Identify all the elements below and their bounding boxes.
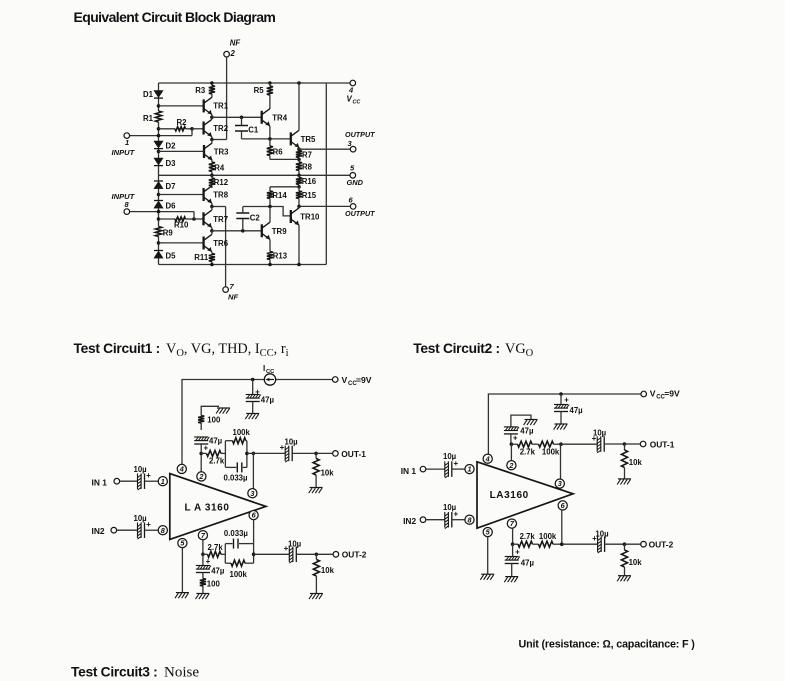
capacitor 47u at TC2 pin2 [511, 415, 531, 427]
pin circle 4 TC2 [483, 454, 492, 463]
resistor R9 [155, 227, 161, 237]
diode D3 [154, 158, 163, 165]
terminal VCC=9V [332, 377, 338, 383]
svg-text:10µ: 10µ [134, 514, 148, 523]
svg-text:47µ: 47µ [521, 559, 535, 568]
svg-text:Equivalent Circuit Block Diagr: Equivalent Circuit Block Diagram [74, 9, 276, 25]
svg-text:1: 1 [125, 138, 129, 147]
pin circle 5 TC2 [483, 528, 492, 537]
wire: pin2 node vertical [200, 453, 202, 471]
wire: TC2 Vcc rail [488, 394, 640, 454]
ground at TC2 pin7 47u [505, 576, 518, 578]
resistor 100 at pin2 [198, 416, 204, 424]
capacitor 10u TC2 OUT-2 [597, 536, 599, 552]
svg-text:2: 2 [230, 49, 236, 58]
pin circle 3 [248, 489, 257, 498]
wire: R2 node to TR2 base [190, 127, 194, 131]
diode D1 [154, 91, 163, 98]
capacitor 47u at Vcc rail [251, 378, 255, 382]
wire: C1 bottom to TR5 base [242, 138, 291, 140]
svg-text:+: + [453, 509, 458, 518]
wire: R14 top to R16/R15 junction [270, 186, 299, 188]
svg-text:10k: 10k [321, 468, 335, 477]
svg-text:100k: 100k [230, 570, 248, 579]
wire: pin6 vertical [253, 520, 255, 544]
transistor TR7 [202, 212, 204, 225]
svg-text:R10: R10 [174, 221, 189, 230]
pin circle 8 [158, 526, 167, 535]
resistor 100 at pin7 [200, 579, 206, 587]
wire: TR6 collector [211, 231, 213, 235]
resistor 10k TC2 OUT-2 [624, 544, 626, 550]
resistor R7 [298, 149, 300, 150]
terminal OUT-2 TC2 [641, 541, 647, 547]
svg-text:IN 1: IN 1 [92, 477, 108, 487]
svg-text:10k: 10k [629, 458, 643, 467]
svg-text:NF: NF [230, 39, 241, 48]
resistor 2.7k TC2 top [511, 443, 517, 445]
resistor R8 [298, 159, 300, 162]
wire: TC2 pin7 node [512, 528, 514, 544]
capacitor C2 [241, 229, 245, 233]
svg-text:CC: CC [266, 369, 275, 375]
svg-text:TR4: TR4 [272, 113, 287, 122]
wire: TR3 collector [211, 140, 213, 143]
capacitor 0.033u TC1 top [225, 466, 236, 468]
transistor TR9 [261, 224, 263, 237]
svg-text:R6: R6 [273, 147, 284, 156]
node OUT-1 TC2 [623, 442, 627, 446]
svg-text:IN 1: IN 1 [401, 466, 417, 476]
svg-text:+: + [255, 388, 260, 397]
terminal INPUT pin 1 [130, 135, 192, 137]
capacitor 10u OUT-2 [288, 547, 290, 563]
svg-text:Unit (resistance: Ω, capacitan: Unit (resistance: Ω, capacitance: F ) [519, 639, 696, 651]
svg-text:D5: D5 [166, 252, 177, 261]
wire: top rail to Vcc [159, 82, 350, 84]
svg-text:R3: R3 [195, 86, 206, 95]
svg-text:+: + [564, 396, 569, 405]
pin circle 7 [198, 531, 207, 540]
svg-text:V: V [342, 375, 348, 385]
pin circle 1 [158, 477, 167, 486]
svg-text:2.7k: 2.7k [520, 448, 536, 457]
node OUT-2 TC2 [623, 542, 627, 546]
svg-text:100k: 100k [542, 448, 560, 457]
node: TR5 emitter / pin3 net [298, 148, 300, 150]
pin circle 2 TC2 [507, 461, 516, 470]
wire: gnd rail to pin5 [159, 174, 350, 176]
svg-text:4: 4 [179, 465, 184, 474]
terminal OUTPUT pin 6 [350, 204, 356, 210]
transistor TR5 [290, 132, 292, 145]
wire: right vertical rail [325, 83, 327, 265]
resistor 100k TC2 bottom [539, 541, 554, 547]
svg-text:47µ: 47µ [209, 437, 223, 446]
diode D2 [154, 141, 163, 148]
wire: pin5 to ground [181, 548, 183, 593]
capacitor 47u at pin2 [194, 436, 208, 438]
svg-text:OUT-1: OUT-1 [650, 439, 675, 449]
wire: to OUTPUT pin 3 [299, 148, 350, 150]
resistor R15 [298, 187, 300, 191]
terminal VCC pin 4 [350, 80, 356, 86]
resistor R6 [269, 139, 271, 146]
svg-text:4: 4 [485, 454, 490, 463]
resistor R1 [155, 111, 161, 122]
ground at pin2 100 [217, 407, 230, 409]
wire: TR2 collector [211, 117, 213, 119]
transistor TR4 [261, 111, 263, 124]
svg-text:+: + [146, 520, 151, 529]
svg-text:10µ: 10µ [134, 465, 148, 474]
svg-text:R13: R13 [273, 252, 288, 261]
ground at pin5 [176, 592, 189, 594]
node: D7-D6 junction to TR8 base [157, 193, 161, 197]
svg-text:IN2: IN2 [403, 516, 416, 526]
resistor R5 [268, 81, 272, 85]
resistor 2.7k TC1 bottom [203, 553, 208, 555]
capacitor 47u at pin7 [202, 554, 204, 565]
svg-text:R7: R7 [302, 151, 312, 160]
resistor 100k TC2 top [539, 441, 554, 447]
svg-text:R2: R2 [177, 118, 188, 127]
svg-text:100k: 100k [233, 428, 251, 437]
resistor 10k OUT-1 [315, 453, 317, 458]
svg-text:10µ: 10µ [285, 438, 299, 447]
node: TR4 emitter [269, 126, 271, 139]
svg-text:R15: R15 [302, 191, 317, 200]
transistor TR2 [202, 122, 204, 135]
svg-text:I: I [263, 364, 265, 373]
svg-text:TR6: TR6 [213, 239, 228, 248]
capacitor 10u OUT-1 [284, 446, 286, 462]
pin circle 7 TC2 [507, 519, 516, 528]
svg-text:OUTPUT: OUTPUT [345, 209, 375, 218]
svg-text:OUTPUT: OUTPUT [345, 130, 375, 139]
wire: pin3 vertical TC2 [560, 444, 562, 479]
svg-text:47µ: 47µ [570, 406, 584, 415]
svg-text:CC: CC [353, 100, 361, 106]
ground at TC2 OUT-1 [618, 478, 631, 480]
svg-text:0.033µ: 0.033µ [224, 529, 249, 538]
wire: C2 top / TR9 collector node to TR10 base [243, 207, 291, 216]
resistor 100k TC1 top [225, 440, 232, 442]
node: D2-D3 junction to TR3 base [157, 150, 161, 154]
resistor R4 [211, 160, 213, 162]
capacitor 10u TC2 IN1 [444, 461, 446, 477]
svg-text:2.7k: 2.7k [520, 532, 536, 541]
svg-text:10k: 10k [629, 558, 643, 567]
svg-text:INPUT: INPUT [112, 148, 136, 157]
wire: TR7 collector [211, 207, 213, 211]
resistor 100k TC1 bottom [225, 562, 231, 564]
svg-text:C2: C2 [250, 213, 261, 222]
svg-text:3: 3 [250, 489, 254, 498]
resistor R16 [298, 175, 300, 177]
svg-text:Test Circuit2 :: Test Circuit2 : [413, 341, 499, 356]
svg-text:10µ: 10µ [288, 539, 302, 548]
svg-text:100k: 100k [539, 532, 557, 541]
svg-text:2: 2 [508, 461, 513, 470]
svg-text:+: + [513, 434, 518, 443]
svg-text:2: 2 [198, 472, 203, 481]
svg-text:OUT-2: OUT-2 [649, 540, 674, 550]
ammeter ICC [264, 374, 275, 385]
node OUT-1 [314, 452, 318, 456]
resistor R3 [211, 83, 213, 86]
resistor R13 [267, 252, 273, 260]
terminal INPUT pin 8 [124, 209, 130, 215]
op-amp U1 LA3160 [170, 474, 266, 540]
svg-text:TR8: TR8 [213, 191, 228, 200]
terminal OUT-1 TC2 [640, 441, 646, 447]
terminal NF pin 7 [223, 287, 229, 293]
svg-text:R12: R12 [214, 178, 229, 187]
transistor TR6 [202, 237, 204, 250]
ground at TC2 OUT-2 [618, 575, 631, 577]
node: TR8 emitter / NF7 net [211, 203, 213, 206]
svg-text:47µ: 47µ [261, 396, 275, 405]
svg-text:0.033µ: 0.033µ [224, 474, 249, 483]
svg-text:+: + [206, 557, 211, 566]
svg-text:1: 1 [161, 477, 165, 486]
svg-text:TR5: TR5 [301, 135, 316, 144]
node: TR1 emitter [211, 115, 213, 118]
wire: out2 node line [254, 553, 290, 555]
wire: TC2 pin6 vertical [561, 510, 563, 544]
svg-text:Noise: Noise [164, 665, 199, 681]
capacitor 10u TC2 OUT-1 [596, 436, 598, 452]
wire: NF pin7 vertical [225, 207, 227, 287]
svg-text:=9V: =9V [356, 375, 372, 385]
ground at TC2 pin2 47u [525, 419, 538, 421]
transistor TR3 [203, 145, 205, 158]
svg-text:+: + [453, 459, 458, 468]
ground at TC2 pin5 [481, 573, 494, 575]
wire: to OUTPUT pin 6 [299, 205, 350, 207]
terminal OUT-2 [333, 552, 339, 558]
transistor TR8 [202, 188, 204, 201]
resistor R10 [157, 217, 161, 221]
svg-text:TR3: TR3 [214, 148, 229, 157]
wire: R6 bottom to R7/R8 junction [270, 158, 299, 160]
pin circle 4 [177, 464, 186, 473]
svg-text:100: 100 [207, 416, 221, 425]
svg-text:NF: NF [228, 293, 238, 302]
svg-text:TR2: TR2 [213, 124, 228, 133]
pin circle 3 TC2 [555, 479, 564, 488]
node: TR2 emitter / NF net [211, 137, 213, 140]
svg-text:+: + [146, 471, 151, 480]
wire: bottom rail [159, 264, 327, 266]
wire: TC2 pin5 to ground [487, 537, 489, 575]
svg-text:10µ: 10µ [595, 530, 609, 539]
feedback box TC1 top: 100k parallel 0.033u [224, 441, 226, 468]
svg-text:R9: R9 [163, 229, 174, 238]
wire: TR9 emitter to R13 [269, 239, 271, 251]
svg-text:TR7: TR7 [213, 215, 228, 224]
terminal GND pin 5 [350, 173, 356, 179]
pin circle 2 [197, 472, 206, 481]
svg-text:R5: R5 [254, 86, 265, 95]
svg-text:10µ: 10µ [593, 428, 607, 437]
diode D6 [154, 200, 163, 202]
svg-text:47µ: 47µ [520, 427, 534, 436]
svg-text:D1: D1 [143, 90, 154, 99]
wire: input8 node to TR7 base [192, 217, 196, 221]
terminal OUTPUT pin 3 [350, 146, 356, 152]
node pin2 TC2 [510, 442, 514, 446]
capacitor 10u IN1 [137, 473, 139, 489]
resistor R2 [159, 128, 176, 130]
svg-text:D7: D7 [166, 182, 176, 191]
ground at OUT-1 10k [310, 487, 323, 489]
svg-text:OUT-1: OUT-1 [341, 449, 366, 459]
terminal VCC=9V TC2 [641, 391, 647, 397]
wire: TR5 collector to top rail [297, 81, 301, 85]
pin circle 5 [178, 539, 187, 548]
node feedback/out TC2 top [559, 442, 563, 446]
wire: left bias rail segments [158, 83, 160, 91]
wire: pin7 node [202, 540, 204, 555]
terminal OUT-1 [333, 451, 339, 457]
resistor 10k TC2 OUT-1 [624, 444, 626, 450]
wire: TC2 out2 line [562, 543, 598, 545]
svg-text:Test Circuit3 :: Test Circuit3 : [71, 665, 157, 680]
capacitor 10u TC2 IN2 [444, 512, 446, 528]
svg-text:100: 100 [207, 580, 221, 589]
feedback box TC1 bottom [224, 544, 226, 564]
svg-text:L A 3160: L A 3160 [185, 503, 230, 514]
svg-text:R14: R14 [272, 191, 287, 200]
transistor TR1 [203, 99, 205, 112]
capacitor C1 [240, 116, 244, 120]
svg-text:47µ: 47µ [211, 567, 225, 576]
svg-text:R11: R11 [194, 253, 209, 262]
svg-text:GND: GND [347, 178, 364, 187]
svg-text:+: + [203, 444, 208, 453]
capacitor 10u IN2 [137, 522, 139, 538]
svg-text:3: 3 [558, 479, 562, 488]
resistor 2.7k TC2 bottom [513, 543, 518, 545]
svg-text:D2: D2 [166, 142, 177, 151]
wire: TR1 emitter to TR4 base [212, 116, 262, 118]
transistor TR10 [290, 210, 292, 223]
capacitor 47u at TC2 rail [559, 392, 563, 396]
svg-text:D3: D3 [166, 159, 177, 168]
pin circle 1 TC2 [465, 465, 474, 474]
wire: TR9 collector [269, 207, 271, 223]
svg-text:Test Circuit1 :: Test Circuit1 : [74, 341, 160, 356]
svg-text:4: 4 [348, 86, 354, 95]
node OUT-2 [315, 553, 319, 557]
wire: TR10 emitter to bottom rail [298, 225, 300, 264]
wire: TR10 collector [298, 206, 300, 208]
wire: TC1 Vcc rail [182, 380, 264, 465]
diode D5 [154, 250, 163, 252]
svg-text:TR1: TR1 [213, 102, 228, 111]
resistor R12 [211, 175, 213, 178]
terminal NF pin 2 [224, 51, 230, 57]
pin circle 6 [249, 510, 258, 519]
ground at OUT-2 10k [310, 593, 323, 595]
svg-text:2.7k: 2.7k [208, 543, 224, 552]
pin circle 8 TC2 [465, 515, 474, 524]
svg-text:R16: R16 [302, 177, 317, 186]
resistor R14 [269, 187, 271, 191]
node: R9-D5 junction to TR6 base [157, 241, 161, 245]
resistor 2.7k feedback TC1 top [201, 452, 206, 454]
svg-text:OUT-2: OUT-2 [342, 550, 367, 560]
svg-text:C1: C1 [248, 125, 259, 134]
svg-text:10k: 10k [321, 566, 335, 575]
resistor 10k OUT-2 [315, 554, 317, 559]
node: D1-R1 junction to TR1 base [157, 104, 161, 108]
node: TR7 emitter to TR9 base [211, 227, 213, 230]
svg-text:R8: R8 [302, 163, 313, 172]
capacitor 47u at TC2 pin7 [512, 544, 514, 556]
svg-text:R4: R4 [214, 164, 225, 173]
svg-text:R1: R1 [143, 114, 154, 123]
op-amp U2 LA3160 [477, 462, 573, 528]
node: R1-R2 junction [157, 127, 161, 131]
diode D7 [154, 180, 163, 182]
svg-text:2.7k: 2.7k [209, 457, 225, 466]
wire: pin3 vertical [252, 453, 254, 488]
pin circle 6 TC2 [558, 501, 567, 510]
svg-text:TR10: TR10 [300, 213, 320, 222]
capacitor 0.033u TC1 bottom [225, 543, 232, 545]
resistor R11 [211, 252, 213, 254]
ground at pin7 chain [196, 593, 209, 595]
svg-text:D6: D6 [166, 201, 177, 210]
wire: feedback node to out coupling [245, 452, 249, 456]
svg-text:TR9: TR9 [272, 227, 287, 236]
svg-text:LA3160: LA3160 [490, 490, 529, 501]
svg-text:+: + [515, 548, 520, 557]
svg-text:=9V: =9V [664, 389, 680, 399]
svg-text:IN2: IN2 [92, 526, 105, 536]
ground at TC2 rail 47u [555, 423, 568, 425]
ground at Vcc 47u [246, 413, 259, 415]
svg-text:1: 1 [467, 465, 471, 474]
svg-text:V: V [650, 389, 656, 399]
